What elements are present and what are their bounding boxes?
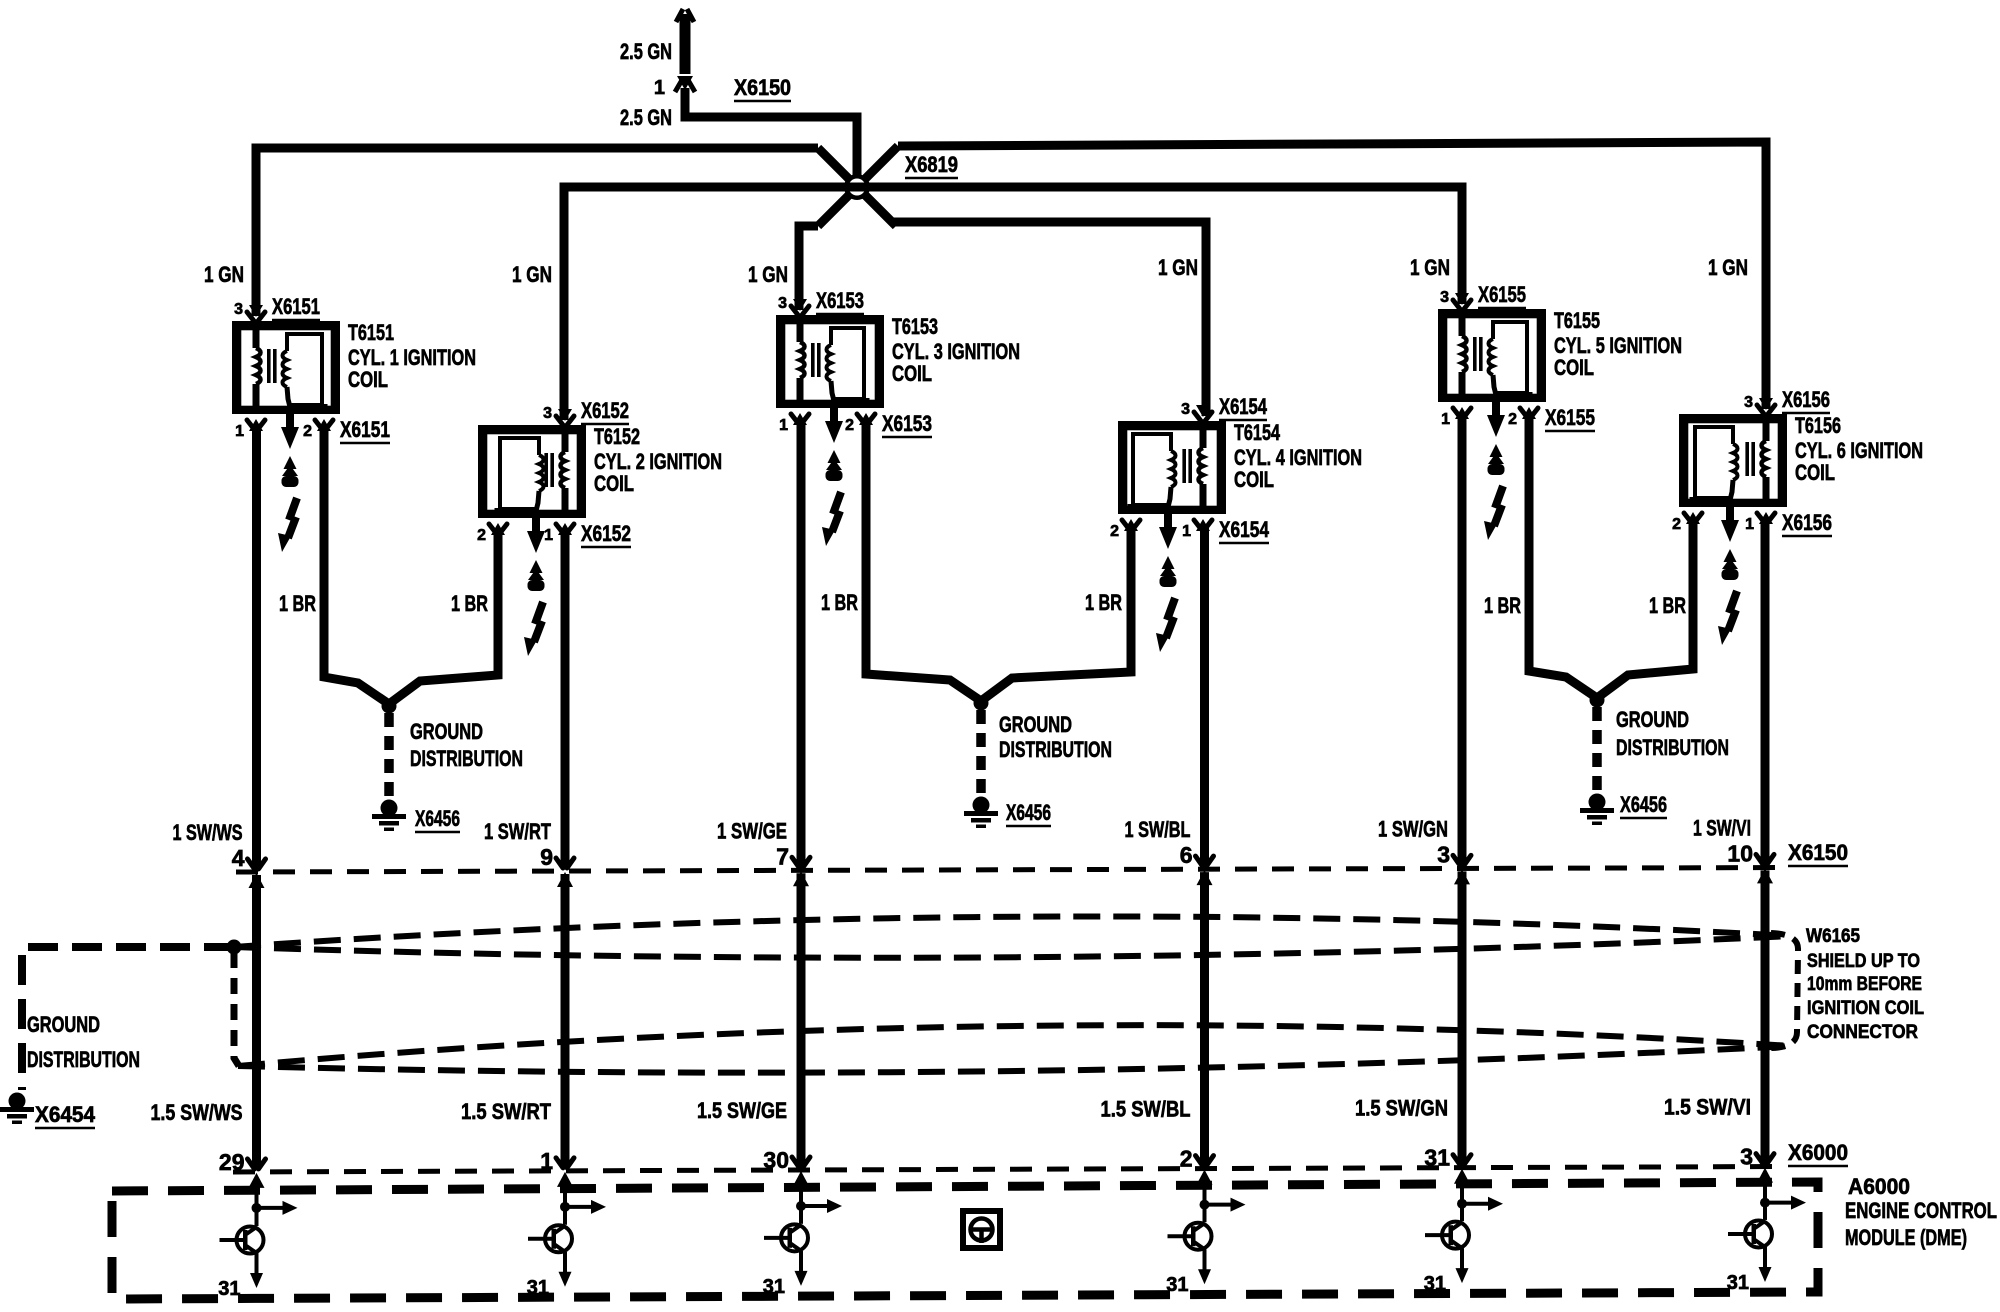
svg-text:1.5 SW/GE: 1.5 SW/GE bbox=[697, 1098, 787, 1123]
svg-text:ENGINE CONTROL: ENGINE CONTROL bbox=[1845, 1198, 1997, 1223]
wire 1.5 SW/VI from X6150 to X6000 bbox=[1761, 870, 1770, 1163]
wire 1 SW/VI from coil to connector X6150 bbox=[1761, 519, 1770, 864]
svg-text:1: 1 bbox=[779, 417, 788, 434]
svg-text:3: 3 bbox=[543, 405, 552, 422]
svg-text:1 GN: 1 GN bbox=[1708, 255, 1748, 280]
svg-text:A6000: A6000 bbox=[1848, 1174, 1910, 1199]
shield W6165 dashed oval left node bbox=[227, 940, 242, 955]
connector X6150 pin 1 inline symbol bbox=[677, 76, 693, 90]
svg-text:2: 2 bbox=[303, 423, 312, 440]
svg-text:3: 3 bbox=[1181, 401, 1190, 418]
DME driver transistor stage for wire at x=1204 with pin 31 internal ground bbox=[1203, 1183, 1207, 1223]
coil T6152 pin 1 connector bbox=[558, 523, 572, 535]
svg-text:DISTRIBUTION: DISTRIBUTION bbox=[410, 746, 523, 771]
svg-text:1 SW/BL: 1 SW/BL bbox=[1125, 817, 1191, 842]
wire 1 GN branch to coil 2 bbox=[564, 187, 857, 420]
svg-text:T6152: T6152 bbox=[594, 424, 640, 449]
ignition coil T6151 (CYL. 1) bbox=[236, 325, 337, 411]
svg-text:1: 1 bbox=[1182, 523, 1191, 540]
coil T6153 pin 2 connector bbox=[859, 413, 873, 425]
coil T6155 pin 1 connector bbox=[1455, 407, 1469, 419]
svg-text:X6155: X6155 bbox=[1478, 282, 1526, 307]
ignition coil T6156 (CYL. 6) bbox=[1683, 418, 1784, 504]
wire 1 SW/GE from coil to connector X6150 bbox=[797, 420, 806, 867]
svg-text:1 GN: 1 GN bbox=[204, 262, 244, 287]
svg-text:31: 31 bbox=[1424, 1273, 1446, 1295]
wire 1 GN branch to coil 3 bbox=[799, 226, 818, 310]
svg-text:X6454: X6454 bbox=[35, 1102, 96, 1127]
connector symbol at X6150 for 1 SW/BL bbox=[1196, 856, 1214, 866]
connector symbol at X6000 for 1.5 SW/VI bbox=[1756, 1154, 1774, 1164]
connector symbol at X6000 for 1.5 SW/BL bbox=[1196, 1156, 1214, 1166]
ground distribution node for coils 3-4 bbox=[974, 696, 989, 711]
svg-text:X6156: X6156 bbox=[1782, 387, 1830, 412]
svg-text:1: 1 bbox=[1745, 516, 1754, 533]
svg-text:2: 2 bbox=[1672, 516, 1681, 533]
ground X6454 bbox=[9, 1093, 26, 1110]
svg-text:6: 6 bbox=[1180, 842, 1193, 868]
wire 1 GN branch to coil 5 bbox=[857, 187, 1462, 304]
svg-text:T6151: T6151 bbox=[348, 320, 394, 345]
ground X6456 (coils 1-2) bbox=[381, 800, 398, 817]
DME internal symbol (boxed wheel) bbox=[963, 1211, 1000, 1248]
dashed ground lead from shield to left bbox=[22, 947, 234, 1090]
wire 1.5 SW/GN from X6150 to X6000 bbox=[1458, 871, 1467, 1164]
connector X6000 dashed line bbox=[233, 1167, 1787, 1173]
svg-text:X6154: X6154 bbox=[1219, 394, 1268, 419]
connector X6152 pin 3 at coil T6152 bbox=[558, 409, 572, 421]
svg-text:10mm BEFORE: 10mm BEFORE bbox=[1807, 974, 1922, 995]
svg-text:1: 1 bbox=[1441, 411, 1450, 428]
wire 1 GN branch to coil 6 bbox=[898, 142, 1766, 409]
svg-text:COIL: COIL bbox=[1234, 467, 1274, 492]
DME driver transistor stage for wire at x=256 with pin 31 internal ground bbox=[255, 1186, 259, 1226]
svg-text:1 SW/WS: 1 SW/WS bbox=[173, 820, 243, 845]
ground X6456 (coils 3-4) bbox=[973, 797, 990, 814]
svg-text:X6151: X6151 bbox=[272, 294, 320, 319]
svg-text:2: 2 bbox=[1508, 411, 1517, 428]
coil T6151 pin 1 connector bbox=[249, 419, 263, 431]
shield W6165 upper lens dashed curves bbox=[234, 916, 1791, 947]
svg-text:T6155: T6155 bbox=[1554, 308, 1600, 333]
coil T6155 pin 2 connector bbox=[1522, 407, 1536, 419]
svg-text:COIL: COIL bbox=[892, 361, 932, 386]
wire 1 SW/GN from coil to connector X6150 bbox=[1458, 414, 1467, 865]
DME driver transistor stage for wire at x=801 with pin 31 internal ground bbox=[799, 1184, 803, 1224]
svg-text:3: 3 bbox=[234, 301, 243, 318]
svg-text:1 SW/VI: 1 SW/VI bbox=[1693, 815, 1751, 840]
svg-text:1.5 SW/VI: 1.5 SW/VI bbox=[1664, 1095, 1751, 1120]
spark plug gap symbol of coil T6155 bbox=[1492, 400, 1500, 417]
svg-text:DISTRIBUTION: DISTRIBUTION bbox=[999, 737, 1112, 762]
engine control module A6000 dashed box bbox=[112, 1182, 1818, 1299]
ground distribution node for coils 5-6 bbox=[1590, 693, 1605, 708]
svg-text:31: 31 bbox=[218, 1278, 240, 1300]
wire 1 SW/WS from coil to connector X6150 bbox=[252, 426, 261, 869]
connector X6150 dashed line bbox=[236, 868, 1790, 873]
svg-text:1 BR: 1 BR bbox=[451, 591, 488, 616]
wire 1.5 SW/RT from X6150 to X6000 bbox=[561, 874, 570, 1168]
svg-text:1.5 SW/RT: 1.5 SW/RT bbox=[461, 1099, 551, 1124]
wire 1.5 SW/BL from X6150 to X6000 bbox=[1200, 872, 1209, 1166]
spark plug gap symbol of coil T6153 bbox=[830, 406, 838, 423]
svg-text:9: 9 bbox=[540, 844, 553, 870]
svg-text:1 BR: 1 BR bbox=[1649, 593, 1686, 618]
wire 1 BR coil 6 pin 2 to ground node bbox=[1597, 519, 1693, 698]
connector symbol at X6150 for 1 SW/VI bbox=[1756, 854, 1774, 864]
svg-text:1: 1 bbox=[654, 77, 665, 99]
svg-text:1.5 SW/WS: 1.5 SW/WS bbox=[151, 1100, 243, 1125]
svg-text:1 GN: 1 GN bbox=[748, 262, 788, 287]
svg-text:MODULE (DME): MODULE (DME) bbox=[1845, 1225, 1967, 1250]
svg-text:2: 2 bbox=[1110, 523, 1119, 540]
coil T6156 pin 2 connector bbox=[1686, 512, 1700, 524]
svg-text:DISTRIBUTION: DISTRIBUTION bbox=[27, 1047, 140, 1072]
svg-text:1 BR: 1 BR bbox=[279, 591, 316, 616]
connector symbol at X6150 for 1 SW/GN bbox=[1453, 855, 1471, 865]
svg-text:X6156: X6156 bbox=[1782, 510, 1832, 535]
connector symbol at X6000 for 1.5 SW/GN bbox=[1453, 1155, 1471, 1165]
coil T6154 pin 2 connector bbox=[1124, 519, 1138, 531]
svg-text:2.5 GN: 2.5 GN bbox=[620, 39, 672, 64]
svg-text:1 BR: 1 BR bbox=[821, 590, 858, 615]
wire 1 BR coil 3 pin 2 to ground node bbox=[866, 420, 981, 701]
connector symbol at X6000 for 1.5 SW/WS bbox=[248, 1159, 266, 1169]
connector symbol at X6150 for 1 SW/GE bbox=[792, 857, 810, 867]
svg-text:1 GN: 1 GN bbox=[1410, 255, 1450, 280]
connector symbol at X6150 for 1 SW/RT bbox=[556, 858, 574, 868]
svg-text:1.5 SW/BL: 1.5 SW/BL bbox=[1101, 1097, 1191, 1122]
svg-text:X6152: X6152 bbox=[581, 398, 629, 423]
connector X6153 pin 3 at coil T6153 bbox=[793, 299, 807, 311]
coil T6151 pin 2 connector bbox=[317, 419, 331, 431]
coil T6154 pin 1 connector bbox=[1196, 519, 1210, 531]
ignition coil T6152 (CYL. 2) bbox=[482, 429, 583, 515]
svg-text:GROUND: GROUND bbox=[1616, 707, 1689, 732]
svg-text:1 BR: 1 BR bbox=[1085, 590, 1122, 615]
coil T6156 pin 1 connector bbox=[1759, 512, 1773, 524]
dashed lead to ground X6456 (coils 1-2) bbox=[384, 713, 394, 797]
shield W6165 lower lens dashed curves bbox=[238, 1025, 1791, 1066]
svg-text:1.5 SW/GN: 1.5 SW/GN bbox=[1355, 1096, 1448, 1121]
spark plug gap symbol of coil T6154 bbox=[1164, 512, 1172, 529]
spark plug gap symbol of coil T6152 bbox=[532, 516, 540, 533]
wire 1.5 SW/WS from X6150 to X6000 bbox=[252, 875, 261, 1169]
svg-text:GROUND: GROUND bbox=[27, 1012, 100, 1037]
connector symbol at X6000 for 1.5 SW/RT bbox=[556, 1158, 574, 1168]
wire 1 GN branch to coil 1 bbox=[256, 148, 818, 316]
DME driver transistor stage for wire at x=565 with pin 31 internal ground bbox=[563, 1185, 567, 1225]
shield W6165 left vertical dashed link bbox=[234, 952, 239, 1066]
shield W6165 right bracket bbox=[1770, 933, 1798, 1048]
svg-text:2: 2 bbox=[845, 417, 854, 434]
wire 1 BR coil 4 pin 2 to ground node bbox=[981, 526, 1131, 701]
svg-text:T6154: T6154 bbox=[1234, 420, 1281, 445]
svg-text:1 SW/GN: 1 SW/GN bbox=[1378, 816, 1448, 841]
svg-text:CONNECTOR: CONNECTOR bbox=[1807, 1022, 1918, 1043]
svg-text:T6153: T6153 bbox=[892, 314, 938, 339]
wire 2.5 GN from connector to junction X6819 bbox=[685, 88, 857, 187]
svg-text:4: 4 bbox=[232, 845, 245, 871]
svg-text:3: 3 bbox=[1437, 841, 1450, 867]
connector symbol at X6150 for 1 SW/WS bbox=[248, 859, 266, 869]
svg-text:2.5 GN: 2.5 GN bbox=[620, 105, 672, 130]
svg-text:X6456: X6456 bbox=[1620, 792, 1667, 817]
svg-text:31: 31 bbox=[763, 1276, 785, 1298]
svg-text:COIL: COIL bbox=[594, 471, 634, 496]
coil T6153 pin 1 connector bbox=[793, 413, 807, 425]
ground distribution node for coils 1-2 bbox=[382, 699, 397, 714]
dashed lead to ground X6456 (coils 5-6) bbox=[1592, 707, 1602, 791]
svg-text:GROUND: GROUND bbox=[410, 719, 483, 744]
svg-text:X6150: X6150 bbox=[734, 75, 791, 100]
svg-text:3: 3 bbox=[1440, 289, 1449, 306]
svg-text:7: 7 bbox=[776, 843, 789, 869]
svg-text:31: 31 bbox=[1727, 1272, 1749, 1294]
wire 2.5 GN supply from top with continuation fork bbox=[680, 14, 691, 74]
svg-text:1 SW/GE: 1 SW/GE bbox=[717, 818, 787, 843]
ignition coil T6153 (CYL. 3) bbox=[780, 319, 881, 405]
DME driver transistor stage for wire at x=1765 with pin 31 internal ground bbox=[1763, 1181, 1767, 1220]
junction/splice X6819 8-way star bbox=[818, 146, 898, 226]
svg-text:X6000: X6000 bbox=[1788, 1140, 1848, 1165]
svg-text:T6156: T6156 bbox=[1795, 413, 1841, 438]
svg-text:DISTRIBUTION: DISTRIBUTION bbox=[1616, 735, 1729, 760]
svg-text:X6456: X6456 bbox=[1006, 800, 1051, 825]
svg-text:2: 2 bbox=[1180, 1146, 1193, 1172]
DME driver transistor stage for wire at x=1462 with pin 31 internal ground bbox=[1460, 1182, 1464, 1221]
svg-text:COIL: COIL bbox=[348, 367, 388, 392]
svg-text:3: 3 bbox=[778, 295, 787, 312]
spark plug gap symbol of coil T6151 bbox=[286, 412, 294, 429]
connector X6156 pin 3 at coil T6156 bbox=[1759, 398, 1773, 410]
svg-text:X6150: X6150 bbox=[1788, 840, 1848, 865]
svg-text:W6165: W6165 bbox=[1806, 926, 1860, 947]
ignition coil T6154 (CYL. 4) bbox=[1122, 425, 1223, 511]
wire 1 GN branch to coil 4 bbox=[890, 222, 1206, 416]
svg-text:1: 1 bbox=[544, 527, 553, 544]
wire 1 BR coil 5 pin 2 to ground node bbox=[1529, 414, 1597, 698]
coil T6152 pin 2 connector bbox=[491, 523, 505, 535]
svg-text:31: 31 bbox=[1166, 1274, 1188, 1296]
svg-text:X6153: X6153 bbox=[882, 411, 932, 436]
wire 1 SW/RT from coil to connector X6150 bbox=[561, 530, 570, 868]
spark plug gap symbol of coil T6156 bbox=[1726, 505, 1734, 522]
svg-text:3: 3 bbox=[1744, 394, 1753, 411]
connector symbol at X6000 for 1.5 SW/GE bbox=[792, 1157, 810, 1167]
wire 1 BR coil 2 pin 2 to ground node bbox=[389, 530, 498, 704]
svg-text:GROUND: GROUND bbox=[999, 712, 1072, 737]
wire 1 SW/BL from coil to connector X6150 bbox=[1200, 526, 1209, 866]
svg-text:31: 31 bbox=[527, 1277, 549, 1299]
svg-text:X6155: X6155 bbox=[1545, 405, 1595, 430]
wire 1.5 SW/GE from X6150 to X6000 bbox=[797, 873, 806, 1167]
svg-text:X6456: X6456 bbox=[415, 806, 460, 831]
svg-text:X6154: X6154 bbox=[1219, 517, 1270, 542]
svg-text:X6153: X6153 bbox=[816, 288, 864, 313]
svg-text:2: 2 bbox=[477, 527, 486, 544]
ground X6456 (coils 5-6) bbox=[1589, 794, 1606, 811]
svg-text:SHIELD UP TO: SHIELD UP TO bbox=[1807, 951, 1920, 972]
svg-text:1 GN: 1 GN bbox=[1158, 255, 1198, 280]
wire 1 BR coil 1 pin 2 to ground node bbox=[324, 426, 389, 704]
connector X6154 pin 3 at coil T6154 bbox=[1196, 405, 1210, 417]
svg-text:10: 10 bbox=[1727, 840, 1753, 866]
svg-text:X6151: X6151 bbox=[340, 417, 390, 442]
svg-text:IGNITION COIL: IGNITION COIL bbox=[1807, 998, 1924, 1019]
svg-text:1 BR: 1 BR bbox=[1484, 593, 1521, 618]
svg-text:1 GN: 1 GN bbox=[512, 262, 552, 287]
svg-text:X6819: X6819 bbox=[905, 152, 958, 177]
svg-text:X6152: X6152 bbox=[581, 521, 631, 546]
connector X6155 pin 3 at coil T6155 bbox=[1455, 293, 1469, 305]
svg-text:COIL: COIL bbox=[1554, 355, 1594, 380]
connector X6151 pin 3 at coil T6151 bbox=[249, 305, 263, 317]
ignition coil T6155 (CYL. 5) bbox=[1442, 313, 1543, 399]
svg-text:COIL: COIL bbox=[1795, 460, 1835, 485]
svg-text:1 SW/RT: 1 SW/RT bbox=[484, 819, 551, 844]
svg-text:1: 1 bbox=[235, 423, 244, 440]
dashed lead to ground X6456 (coils 3-4) bbox=[976, 710, 986, 794]
